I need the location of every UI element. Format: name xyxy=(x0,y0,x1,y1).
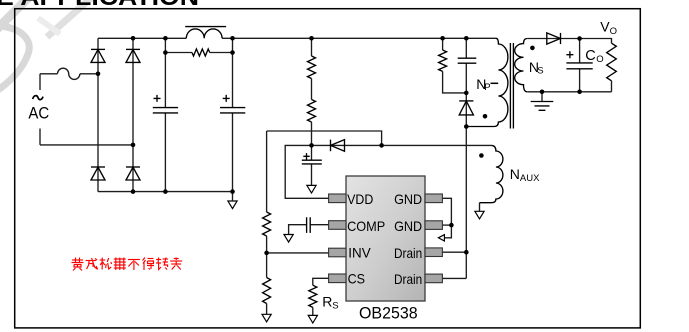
diode D5 (VDD charge, pointing left) xyxy=(330,140,332,152)
node AUX xyxy=(379,143,384,148)
svg-text:COMP: COMP xyxy=(347,218,385,234)
wire Co branch xyxy=(579,39,581,92)
wire Drain pin2 xyxy=(442,277,466,279)
capacitor CO (output, polarized) xyxy=(566,63,592,69)
red notice text (hand-drawn CJK strokes) xyxy=(72,258,183,271)
node bridge branch2 top xyxy=(131,36,136,41)
ground arrow (VDD cap) xyxy=(307,185,316,193)
polarity dot NP xyxy=(483,114,488,119)
svg-text:P: P xyxy=(484,82,490,93)
svg-text:VDD: VDD xyxy=(347,191,373,207)
node secondary gnd tap xyxy=(540,90,545,95)
node INV tap xyxy=(264,251,269,256)
diode D3 (bridge bottom-left) xyxy=(91,166,105,168)
node AC-L / bridge xyxy=(96,72,101,77)
node VDD xyxy=(309,143,314,148)
resistor R5 (clamp) xyxy=(439,50,447,71)
capacitor C1 (bulk, polarized) xyxy=(153,108,178,113)
pin Drain (right) xyxy=(425,274,442,283)
wire secondary top rail xyxy=(527,39,611,44)
transformer T1 auxiliary NAUX xyxy=(480,145,503,202)
resistor R1 (startup upper) xyxy=(308,56,316,79)
transformer T1 primary NP xyxy=(466,38,508,126)
wire VDD pin loop xyxy=(285,145,328,198)
inductor L1 core bar xyxy=(185,26,226,28)
node C2 top rail xyxy=(230,36,235,41)
plus sign C2 xyxy=(223,95,230,102)
svg-text:S: S xyxy=(332,300,338,311)
plus sign C1 xyxy=(154,95,161,102)
resistor R4 (INV divider lower) xyxy=(263,278,271,304)
plus sign C3 xyxy=(303,153,309,159)
svg-text:R: R xyxy=(322,293,332,309)
node CO bottom xyxy=(577,90,582,95)
wire INV top wrap xyxy=(267,131,382,145)
polarity dot NAUX xyxy=(479,153,484,158)
AC source bracket xyxy=(39,74,41,145)
red char 1 xyxy=(72,259,83,261)
capacitor C2 (bulk, polarized) xyxy=(220,108,245,113)
wire bridge branch1 xyxy=(97,38,99,191)
watermark fragment (big letter bowl) xyxy=(0,0,91,90)
wire filter cap2 branch xyxy=(232,38,234,191)
node C2 / damping R xyxy=(230,50,235,55)
capacitor C3 (VDD, polarized) xyxy=(302,160,322,164)
svg-text:C: C xyxy=(585,48,595,64)
fuse F1 xyxy=(58,68,80,79)
svg-text:AC: AC xyxy=(28,105,49,123)
resistor RS (current sense) xyxy=(309,285,317,307)
red char 7 xyxy=(156,259,161,261)
polarity dot NS xyxy=(530,46,535,51)
wire Rs stem xyxy=(312,307,314,315)
wire VDD cap stem xyxy=(311,145,313,185)
node drain / primary xyxy=(464,124,469,129)
svg-text:GND: GND xyxy=(394,191,422,207)
pin CS xyxy=(329,274,346,283)
wire GND pin2 xyxy=(442,224,451,226)
wire AC hot to fuse node xyxy=(40,73,58,75)
wire clamp cap branch xyxy=(465,38,467,126)
node C2 bottom rail xyxy=(230,189,235,194)
node C1 top rail xyxy=(163,36,168,41)
wire top rail right of L1 xyxy=(222,37,496,39)
wire aux node to NAUX winding xyxy=(312,144,492,146)
svg-text:O: O xyxy=(596,54,603,65)
resistor R2 (startup lower) xyxy=(308,100,316,123)
transformer T1 secondary NS xyxy=(515,39,528,92)
node VO top xyxy=(577,36,582,41)
node clamp R rail xyxy=(440,36,445,41)
pin VDD xyxy=(329,194,346,203)
resistor R6 (output load) xyxy=(607,43,617,81)
svg-text:S: S xyxy=(537,66,543,77)
capacitor C5 (clamp) xyxy=(458,58,477,63)
node drain pins xyxy=(464,250,469,255)
ground arrow (NAUX) xyxy=(475,211,484,219)
node C1 bottom rail xyxy=(163,189,168,194)
node AC-N / bridge xyxy=(131,143,136,148)
ground arrow (COMP cap) xyxy=(284,235,293,243)
node clamp RC join xyxy=(464,91,469,96)
ground arrow (bottom rail) xyxy=(228,201,237,209)
node C1 / damping R xyxy=(163,50,168,55)
wire NAUX bottom stem xyxy=(479,203,481,212)
node clamp C rail xyxy=(464,36,469,41)
svg-text:Drain: Drain xyxy=(394,271,422,287)
wire load resistor bottom xyxy=(611,81,613,92)
wire secondary gnd stem xyxy=(541,92,543,102)
svg-text:O: O xyxy=(610,26,617,37)
red char 8 xyxy=(174,258,179,260)
wire INV pin xyxy=(267,252,329,254)
wire bottom rail gnd stem xyxy=(232,192,234,201)
node IC GND xyxy=(449,223,454,228)
svg-text:CS: CS xyxy=(348,270,365,286)
wire COMP pin to cap xyxy=(289,225,329,235)
wire drain line xyxy=(465,127,467,279)
wire filter cap1 branch xyxy=(164,38,166,191)
red char 5 xyxy=(128,259,140,261)
red char 6 xyxy=(143,258,146,261)
red char 3 xyxy=(100,259,106,261)
wire damping resistor link xyxy=(165,52,232,54)
svg-text:INV: INV xyxy=(348,245,371,261)
label NP tick xyxy=(491,82,499,84)
diode D1 (bridge top-left) xyxy=(91,48,105,50)
node bridge branch2 bottom xyxy=(131,189,136,194)
wire AC neutral to bridge xyxy=(40,144,133,146)
ground arrow (RS) xyxy=(308,315,317,323)
wire GND stub to arrow xyxy=(444,225,451,238)
wire startup divider branch xyxy=(311,38,313,145)
plus sign CO xyxy=(566,51,573,58)
label tilde (AC) xyxy=(33,96,43,100)
wire fuse to bridge node xyxy=(80,73,98,75)
earth ground (secondary) xyxy=(531,102,554,111)
svg-text:AUX: AUX xyxy=(520,173,540,184)
diode D6 (clamp) xyxy=(459,100,473,102)
svg-text:OB2538: OB2538 xyxy=(359,304,418,323)
wire secondary bottom rail xyxy=(527,91,611,93)
wire Drain pin1 xyxy=(442,251,466,253)
red char 4 xyxy=(114,258,126,260)
wire INV divider chain xyxy=(266,131,268,314)
inductor L1 xyxy=(186,29,222,38)
wire GND pin1 xyxy=(442,198,451,225)
pin Drain (right) xyxy=(425,248,442,257)
ground arrow (IC GND, pointing left) xyxy=(438,235,444,241)
diode D2 (bridge top-right) xyxy=(126,48,140,50)
wire bottom rail xyxy=(98,191,233,193)
ground arrow (INV divider) xyxy=(262,314,271,322)
svg-text:GND: GND xyxy=(394,218,422,234)
capacitor C4 (COMP) xyxy=(307,217,311,233)
pin GND (right) xyxy=(425,221,442,230)
diode D4 (bridge bottom-right) xyxy=(126,166,140,168)
resistor R3 (INV divider upper) xyxy=(263,212,271,236)
svg-text:Drain: Drain xyxy=(394,245,422,261)
pin GND (right) xyxy=(425,194,442,203)
diode D7 (output rectifier) xyxy=(547,33,561,44)
resistor R damping (parallel with L1) xyxy=(192,49,210,56)
transformer core xyxy=(510,43,513,129)
wire snubber R branch xyxy=(443,38,467,93)
wire bridge branch2 xyxy=(132,38,134,191)
svg-text:N: N xyxy=(510,166,520,182)
pin INV xyxy=(329,248,346,257)
wire CS pin to Rs xyxy=(313,278,329,285)
pin COMP xyxy=(329,221,346,230)
node startup tap xyxy=(309,36,314,41)
red char 2 xyxy=(86,260,97,262)
wire top rail left xyxy=(98,37,186,39)
op IC U1 OB2538 body xyxy=(346,176,425,301)
